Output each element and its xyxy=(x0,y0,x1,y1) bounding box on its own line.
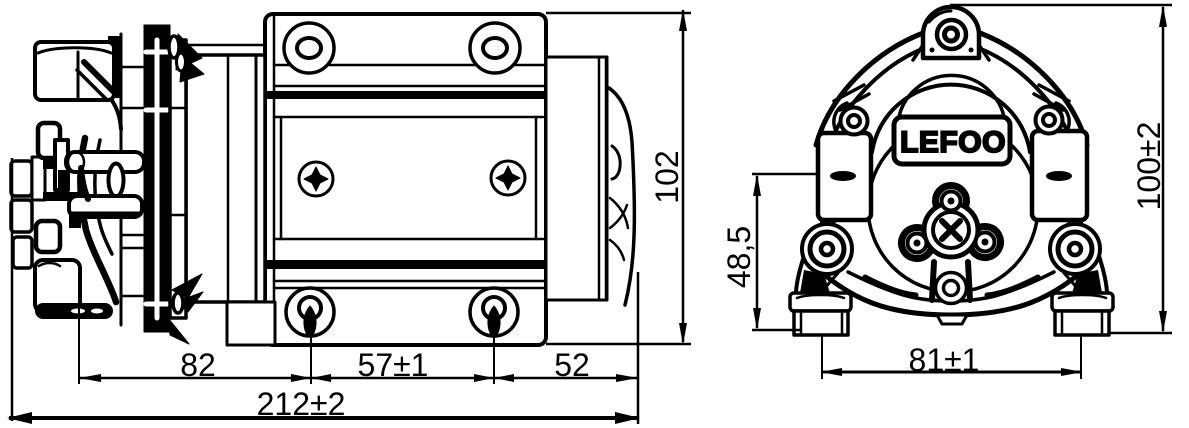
smile outer xyxy=(806,258,1097,315)
inner shell right xyxy=(976,47,1076,152)
arrow 82 left xyxy=(79,374,101,382)
top boss hole xyxy=(945,28,958,41)
crescent overlay between stems xyxy=(81,168,88,199)
hub shadow arcs xyxy=(865,277,916,295)
bowtie x311 xyxy=(291,374,311,382)
T-stem bar1 xyxy=(66,152,144,172)
lower boss right xyxy=(1050,224,1100,274)
right ankle wedge xyxy=(1072,270,1102,293)
mid boss pocket left xyxy=(834,103,847,134)
motor internal line y76 xyxy=(274,85,545,88)
smile inner xyxy=(848,272,1054,301)
bottom lip black bar xyxy=(36,304,112,318)
front adapter housing xyxy=(186,55,265,302)
dim 81 line xyxy=(822,371,1081,374)
ext line bottom for 102 xyxy=(546,343,691,346)
motor bottom flange top edge xyxy=(274,287,545,290)
chamber circle xyxy=(868,122,1038,292)
bottom lobe xyxy=(35,260,80,312)
svg-text:52: 52 xyxy=(554,347,590,383)
arch inner xyxy=(898,75,1005,122)
bottom nub xyxy=(937,315,967,324)
mid tab lines right xyxy=(1034,85,1069,110)
mid boss left xyxy=(841,108,868,135)
arrow 52 right xyxy=(616,374,638,382)
bottom claw spikes xyxy=(172,274,202,298)
bottom ear right xyxy=(470,288,518,336)
inner shell left xyxy=(827,47,927,152)
top boss corner dots xyxy=(930,48,935,53)
right ankle inner xyxy=(1064,273,1080,293)
motor front foot xyxy=(227,302,275,345)
motor internal line y64 xyxy=(274,64,545,67)
crescent parallel xyxy=(95,140,112,254)
arrow 102 top xyxy=(679,9,687,31)
right wing xyxy=(1032,131,1087,220)
arrow 81 right xyxy=(1061,368,1083,376)
ext top for 100 xyxy=(950,4,1172,7)
motor center panel bottom xyxy=(274,238,543,241)
hub screw right xyxy=(976,233,995,252)
hub phillips xyxy=(942,221,960,239)
T-stem link fills xyxy=(43,160,61,169)
ext line top for 102 xyxy=(546,12,691,15)
arrow 212 left xyxy=(7,412,32,424)
mid-lower lobe xyxy=(36,221,60,252)
rear end cap xyxy=(546,57,607,300)
left wing xyxy=(818,133,871,220)
top boss side tabs xyxy=(913,45,989,60)
hub screw top xyxy=(942,192,961,211)
motor thick band top xyxy=(266,91,545,99)
bottom boss shoulders xyxy=(932,262,970,300)
svg-text:48,5: 48,5 xyxy=(721,226,757,288)
svg-text:81±1: 81±1 xyxy=(909,342,980,378)
flange plate right strip xyxy=(170,40,186,318)
left foot lip xyxy=(790,293,851,311)
dim row1 line xyxy=(79,377,638,380)
mid tab lines left xyxy=(834,85,869,110)
svg-text:212±2: 212±2 xyxy=(257,386,346,422)
arrow 100 top xyxy=(1159,5,1167,27)
arrow 81 left xyxy=(820,368,842,376)
svg-text:57±1: 57±1 xyxy=(358,347,429,383)
hub center rings xyxy=(924,203,978,257)
svg-text:82: 82 xyxy=(180,347,216,383)
dim 100 line xyxy=(1162,7,1165,331)
upper-mid lobe xyxy=(38,123,60,158)
arrow 48.5 bottom xyxy=(753,308,761,330)
left ankle inner xyxy=(822,273,838,293)
central hub trilobe xyxy=(902,185,1001,258)
ext left for 81 xyxy=(821,336,823,379)
left ankle wedge xyxy=(800,270,830,293)
port flange xyxy=(32,157,45,200)
ext line x494 xyxy=(493,330,495,384)
phillips screw left xyxy=(299,162,333,196)
head collar dark band xyxy=(108,36,121,98)
svg-text:102: 102 xyxy=(649,150,685,203)
arrow 212 right xyxy=(615,412,640,424)
dim row2 line xyxy=(9,416,638,420)
bottom ear left xyxy=(286,288,334,336)
top boss ring xyxy=(937,20,966,49)
top lobe xyxy=(35,42,114,100)
rear fan shroud profile xyxy=(609,88,634,305)
mid boss pocket right xyxy=(1056,103,1069,134)
phillips screw right xyxy=(491,161,525,195)
head collar line xyxy=(120,34,123,325)
port barb third xyxy=(13,237,32,268)
top boss dome xyxy=(923,7,979,58)
motor thick band bottom xyxy=(266,260,545,269)
left foot body xyxy=(794,311,848,335)
ext line far left xyxy=(11,158,14,421)
outer shell left xyxy=(816,33,923,145)
svg-text:100±2: 100±2 xyxy=(1131,122,1167,211)
dim 48.5 line xyxy=(756,176,759,328)
lower boss left xyxy=(802,224,852,274)
hub screw left xyxy=(908,234,927,253)
top lobe neck xyxy=(84,62,114,92)
outer shell right xyxy=(980,33,1087,145)
bottom boss xyxy=(936,273,967,304)
motor line y281 xyxy=(274,280,545,283)
arrow 102 bottom xyxy=(679,323,687,345)
crescent upper bell xyxy=(108,95,121,129)
svg-text:LEFOO: LEFOO xyxy=(900,126,1006,159)
ext line x638 xyxy=(637,272,640,424)
ext bottom for 48.5 xyxy=(752,329,800,332)
flange plate black bar xyxy=(144,25,170,332)
left ankle outer xyxy=(796,240,809,292)
ext right for 81 xyxy=(1080,336,1082,379)
port barb upper xyxy=(11,161,32,196)
mid boss right xyxy=(1036,107,1063,134)
motor body outline xyxy=(265,14,546,345)
right ankle outer xyxy=(1094,240,1107,292)
right foot body xyxy=(1055,311,1109,335)
T-stem bar2 xyxy=(69,196,142,217)
arrow 48.5 top xyxy=(753,174,761,196)
ext line x311 xyxy=(310,330,312,384)
arch outer xyxy=(872,85,1030,152)
ext top for 48.5 xyxy=(752,173,820,176)
T-stem vertical xyxy=(55,140,68,190)
crescent main diagonal xyxy=(80,138,116,302)
arrow 100 bottom xyxy=(1159,311,1167,333)
dim 102 vertical line xyxy=(682,10,685,342)
bowtie x494 xyxy=(474,374,494,382)
right arm lines xyxy=(1069,220,1085,258)
T-stem piston xyxy=(109,164,124,197)
ext bottom for 100 xyxy=(1110,332,1172,335)
motor center panel top xyxy=(274,116,543,119)
top claw spikes xyxy=(176,34,202,70)
top ear left xyxy=(284,23,334,73)
right foot lip xyxy=(1052,293,1113,311)
ext line x79 xyxy=(78,286,80,384)
left arm lines xyxy=(818,220,834,258)
port barb lower xyxy=(11,200,32,232)
LEFOO plate xyxy=(894,117,1010,164)
collar panel dividers xyxy=(121,67,144,296)
top ear right xyxy=(470,23,520,73)
